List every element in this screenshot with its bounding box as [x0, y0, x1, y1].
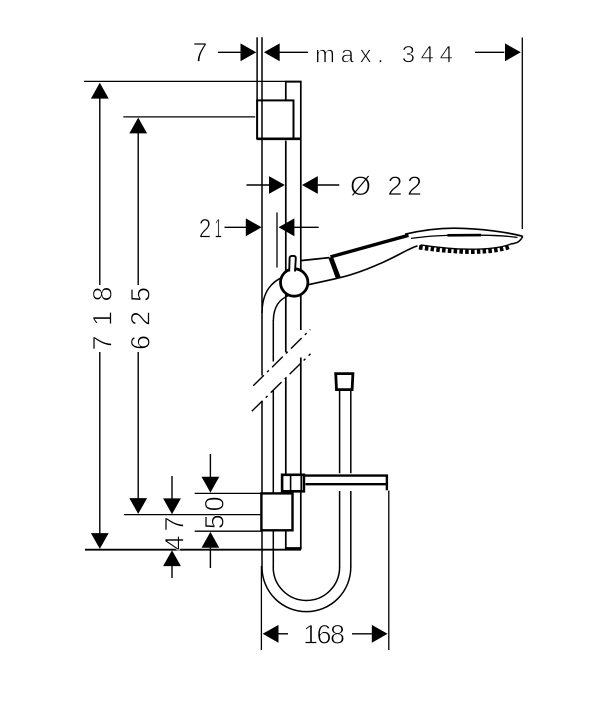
- handle top edge (thick): [331, 235, 409, 257]
- extension line 718/47 bottom: [85, 549, 301, 551]
- dimension 168: [263, 619, 388, 649]
- dimension max. 344: [264, 41, 521, 68]
- rail right line: [300, 81, 302, 548]
- wall plate line right / hose outer straight: [261, 37, 263, 568]
- extension line 625 top: [123, 116, 255, 118]
- hose inner line: [272, 320, 274, 568]
- clamp tab: [289, 256, 296, 272]
- extension line max344 right: [521, 38, 523, 230]
- hose right branch: [340, 391, 351, 569]
- hose U-bend inner: [273, 567, 339, 600]
- soap dish: [302, 473, 388, 491]
- dimension 625 (vertical): [126, 118, 156, 514]
- spray face line: [421, 244, 512, 249]
- head top outline: [405, 228, 523, 236]
- extension line 168 right: [388, 491, 390, 651]
- dimension 47 (vertical): [160, 476, 190, 578]
- hose top bend outer: [262, 277, 284, 314]
- hose U-bend outer: [262, 567, 351, 611]
- wall plate line left: [256, 37, 258, 100]
- joint ring: [328, 257, 340, 279]
- spray nozzles (teeth): [419, 247, 510, 252]
- bottom wall bracket: [261, 493, 292, 530]
- dimension O 22: [247, 171, 423, 201]
- dimension 718 (vertical): [87, 83, 117, 549]
- extension line 168 left: [260, 566, 262, 650]
- dimension 21: [199, 213, 319, 243]
- svg-text:7: 7: [192, 37, 207, 67]
- extension line 50 top: [195, 492, 262, 494]
- hand shower holder cone: [301, 258, 337, 285]
- rail top cap: [285, 81, 302, 83]
- dimension 7: [192, 37, 256, 67]
- extension line 625/47 bottom: [124, 514, 261, 516]
- svg-text:625: 625: [126, 287, 156, 350]
- slider collar of soap dish: [282, 475, 304, 492]
- dimension 50 (vertical): [200, 454, 230, 568]
- extension line 21: [276, 213, 278, 268]
- top wall bracket: [257, 100, 301, 138]
- handle neck bottom: [337, 246, 418, 278]
- head rim inner line thin right: [481, 235, 518, 237]
- head rim inner line thin left: [411, 235, 448, 238]
- head rim inner line thick middle: [448, 234, 482, 237]
- svg-text:1: 1: [215, 213, 223, 243]
- hose end fitting: [336, 374, 353, 390]
- rail bottom cap: [285, 547, 302, 549]
- pivot circle: [281, 269, 308, 296]
- hose top bend inner: [273, 296, 288, 322]
- head tip edge: [511, 236, 523, 244]
- extension line 50 bottom: [195, 530, 262, 532]
- rail left line: [285, 81, 287, 548]
- break mark diagonal lower: [252, 354, 311, 411]
- svg-text:2: 2: [199, 213, 212, 243]
- svg-text:168: 168: [303, 619, 345, 649]
- extension line 718 top: [84, 80, 285, 82]
- svg-text:718: 718: [87, 287, 117, 351]
- break mark diagonal upper: [253, 330, 310, 386]
